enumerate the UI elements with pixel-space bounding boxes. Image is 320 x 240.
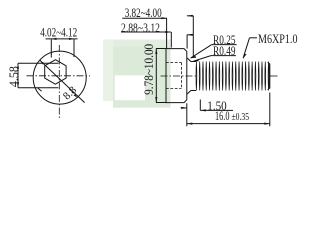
leader arrow M6X	[243, 54, 247, 59]
arrow 9.78 bottom	[155, 97, 157, 103]
extension x171.3	[170, 32, 172, 48]
dim 3.82~4.00 dimension line	[122, 17, 167, 19]
shared left extension	[186, 103, 188, 126]
svg-text:±0.35: ±0.35	[232, 111, 250, 123]
arrow 4.02 right	[69, 38, 75, 40]
dim 9.78~10.00 dimension line	[155, 49, 157, 103]
dim 1.50 left outside arrow	[181, 107, 187, 109]
dim 4.58 dimension line	[17, 63, 19, 87]
dim 2.88~3.12 dimension line	[121, 31, 171, 33]
arrow 4.02 left	[51, 38, 57, 40]
dim 4.02~4.12 dimension line	[46, 38, 78, 40]
side view: head outline	[166, 49, 187, 103]
arrow 3.82 right end	[162, 17, 168, 19]
thread tip end	[268, 62, 270, 89]
extension from head left face	[166, 18, 168, 48]
dim 1.50 right extension	[199, 100, 201, 111]
fillet under head bottom	[187, 91, 191, 95]
dim 4.02~4.12 extension lines	[50, 39, 52, 57]
dim 4.58 extension lines	[18, 62, 59, 64]
extension x193.3	[192, 16, 194, 57]
arrow stub y34.8	[187, 34, 193, 36]
front view: hex socket	[45, 60, 66, 84]
dim 16.0 right extension	[269, 93, 271, 127]
svg-text:16.0: 16.0	[215, 108, 230, 123]
front view: head circle	[33, 51, 86, 104]
dim 9.78~10.00 extension lines	[156, 48, 166, 50]
side view: hex socket hidden lines	[166, 62, 182, 64]
fillet under head top	[187, 58, 191, 62]
leader R0.49	[211, 55, 236, 57]
arrow 1.50 right	[200, 109, 206, 111]
small stray tick near circle lower-left	[38, 88, 42, 91]
arrow 9.78 top	[155, 49, 157, 55]
arrow 1.50 left outside	[181, 107, 187, 109]
leader R0.25	[212, 44, 237, 46]
shank bottom line	[191, 90, 196, 92]
thread teeth	[196, 62, 269, 91]
leader M6XP1.0	[250, 37, 258, 39]
watermark logo	[103, 40, 171, 108]
side view: centerline	[161, 75, 197, 77]
dim 16.0 dimension line	[187, 123, 270, 125]
svg-text:2.88~3.12: 2.88~3.12	[121, 20, 160, 35]
arrowheads	[17, 15, 270, 125]
arrow stub y15.8	[187, 15, 193, 17]
arrow 4.58 top	[17, 63, 19, 68]
svg-text:9.78~10.00: 9.78~10.00	[141, 44, 156, 95]
arrow 4.58 bottom	[17, 82, 19, 88]
extension from head right face top	[186, 35, 188, 49]
arrow 8.8 upper-left	[40, 61, 44, 65]
arrow 2.88 right end	[165, 31, 171, 33]
arrow 8.8 lower-right	[74, 94, 78, 98]
svg-text:4.58: 4.58	[7, 66, 21, 87]
arrow 16.0 right	[264, 123, 270, 125]
arrow 16.0 left	[187, 123, 193, 125]
shank top line	[191, 61, 196, 63]
svg-text:R0.49: R0.49	[213, 43, 236, 58]
dim 8.8 diagonal diameter line	[40, 60, 85, 102]
svg-text:3.82~4.00: 3.82~4.00	[125, 5, 162, 20]
front view: vertical centerline	[58, 45, 60, 119]
outside arrow line at y34.8	[187, 34, 193, 36]
dim 1.50 line under text	[200, 109, 233, 111]
leader arrow R0.25	[190, 56, 196, 59]
svg-text:4.02~4.12: 4.02~4.12	[40, 25, 77, 40]
outside arrow line at y15.8	[187, 15, 193, 17]
svg-text:M6XP1.0: M6XP1.0	[258, 31, 298, 46]
leader arrow R0.49	[193, 59, 199, 61]
front view: horizontal centerline	[27, 75, 91, 77]
